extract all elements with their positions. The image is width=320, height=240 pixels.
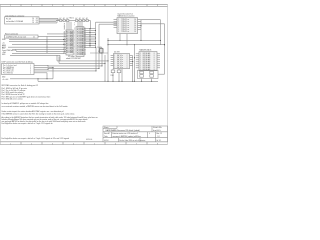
svg-text:21: 21 bbox=[64, 35, 66, 37]
wire RESET bbox=[38, 35, 66, 37]
wire U3 bottom drops bbox=[119, 34, 127, 46]
title block bbox=[103, 126, 168, 142]
svg-text:2/4: 2/4 bbox=[36, 20, 38, 22]
P1 pin numbers bbox=[32, 18, 38, 24]
connector P3 ICSP bbox=[2, 64, 35, 75]
junction dots right of module bbox=[89, 28, 96, 48]
svg-text:Pin 6 GND blk wire is ok too: Pin 6 GND blk wire is ok too bbox=[2, 97, 23, 100]
svg-text:kicad 4.0.7c: kicad 4.0.7c bbox=[153, 130, 161, 132]
svg-text:10: 10 bbox=[32, 18, 34, 20]
module U1 left bank bbox=[66, 30, 73, 55]
svg-text:Id: 1/1: Id: 1/1 bbox=[157, 140, 161, 142]
resistor R14 bbox=[140, 75, 144, 78]
wire cross run A bbox=[107, 40, 161, 41]
wire serial TX to U3 bbox=[96, 21, 118, 23]
wire bus run 4 bbox=[48, 67, 99, 69]
svg-text:T1IN C1+ o: T1IN C1+ o bbox=[121, 23, 129, 25]
U4 right pin stubs bbox=[130, 56, 133, 66]
svg-text:T1IN C1+ o: T1IN C1+ o bbox=[121, 27, 129, 29]
svg-text:40: 40 bbox=[84, 49, 86, 51]
note text block 5 bbox=[2, 116, 98, 123]
svg-text:21: 21 bbox=[64, 43, 66, 45]
wire serial RX to U3 bbox=[99, 24, 117, 47]
svg-text:21: 21 bbox=[64, 42, 66, 44]
connector P1 LCD interface bbox=[5, 17, 40, 24]
resistor R13 bbox=[140, 71, 144, 74]
svg-text:21: 21 bbox=[64, 37, 66, 39]
svg-text:4k7: 4k7 bbox=[79, 18, 81, 20]
wire U4 bottom drop bbox=[121, 69, 122, 82]
svg-text:14: 14 bbox=[134, 27, 136, 29]
svg-text:so no external resistors neede: so no external resistors needed, a BMP18… bbox=[2, 105, 69, 108]
svg-text:21: 21 bbox=[64, 45, 66, 47]
wire right edge vertical bbox=[158, 24, 165, 74]
capacitor C14 bbox=[150, 75, 154, 78]
wire bus run 2 bbox=[59, 57, 105, 64]
svg-text:For Eagle3d or better use expe: For Eagle3d or better use expect a dxf m… bbox=[2, 122, 53, 125]
resistor R8 bbox=[82, 18, 85, 21]
note text block 3 bbox=[2, 102, 69, 108]
svg-text:If the BMP085 sensor is used c: If the BMP085 sensor is used check the E… bbox=[2, 113, 75, 116]
bus right verticals bbox=[95, 38, 108, 82]
svg-text:ICSP connector used for flash: ICSP connector used for flash & debug bbox=[2, 61, 33, 64]
wire long bottom bus bbox=[37, 78, 158, 81]
vertical bus between ICs bbox=[134, 45, 135, 82]
svg-text:HARDWARE-Sensores RS-Interf (m: HARDWARE-Sensores RS-Interf (mbed) bbox=[106, 129, 141, 132]
svg-text:In mbed pcb1 SDA/SCL pullups a: In mbed pcb1 SDA/SCL pullups are on modu… bbox=[2, 102, 49, 105]
resistor R4 bbox=[63, 18, 66, 21]
resistor R11 bbox=[111, 70, 115, 73]
U1 right-bank left pin numbers bbox=[74, 28, 75, 56]
svg-text:40: 40 bbox=[84, 52, 86, 54]
svg-text:4/6: 4/6 bbox=[36, 22, 38, 24]
svg-text:31: 31 bbox=[64, 25, 66, 27]
U3 right pin stubs bbox=[138, 20, 142, 30]
svg-text:14: 14 bbox=[134, 25, 136, 27]
wire gnd collector bbox=[10, 67, 54, 80]
wire nets to module left pins bbox=[9, 39, 66, 44]
wire U3 to far right bbox=[141, 23, 165, 25]
note text block 2 bbox=[2, 95, 51, 100]
U5 left pin stubs bbox=[136, 54, 139, 68]
IC U3 bbox=[117, 18, 138, 34]
svg-text:14: 14 bbox=[134, 29, 136, 31]
wires ICSP pins bbox=[34, 65, 53, 72]
note text block 4 bbox=[2, 110, 75, 116]
U1 reference text bbox=[66, 56, 81, 60]
svg-text:31: 31 bbox=[64, 24, 66, 26]
resistor R6 bbox=[75, 18, 78, 21]
vertical bus x90 bbox=[89, 29, 91, 48]
wire bus run 5 bbox=[48, 70, 96, 72]
svg-text:ISP/JTAG connector for flash &: ISP/JTAG connector for flash & debug por… bbox=[2, 84, 38, 87]
svg-text:T1IN C1+ o: T1IN C1+ o bbox=[121, 31, 129, 33]
svg-text:21: 21 bbox=[64, 38, 66, 40]
svg-text:Pin 3 MISO grn: Pin 3 MISO grn bbox=[3, 69, 14, 71]
svg-text:4k7: 4k7 bbox=[82, 18, 84, 20]
IC U4 bbox=[114, 54, 130, 70]
svg-text:U4 74H: U4 74H bbox=[114, 51, 120, 53]
wire resistor-row bus bbox=[56, 20, 91, 22]
pin numbers above left bank bbox=[64, 24, 66, 31]
svg-text:For Eagle3d or better use expe: For Eagle3d or better use expect a dxf m… bbox=[2, 137, 70, 140]
IC U5 bbox=[139, 52, 157, 72]
svg-text:T1IN C1+ o: T1IN C1+ o bbox=[121, 21, 129, 23]
svg-text:14: 14 bbox=[32, 22, 34, 24]
module U1 right bank bbox=[76, 27, 84, 57]
resistor R9 bbox=[86, 18, 89, 21]
svg-text:1/2: 1/2 bbox=[36, 18, 38, 20]
svg-text:Pin 1 +5v (vcc) red: Pin 1 +5v (vcc) red bbox=[3, 65, 16, 67]
svg-text:120R: 120R bbox=[111, 75, 114, 77]
U1 left pin numbers bbox=[64, 31, 66, 54]
svg-text:4k7: 4k7 bbox=[66, 18, 68, 20]
title block text bbox=[104, 126, 162, 142]
wires left cluster bbox=[112, 69, 119, 82]
svg-text:21: 21 bbox=[64, 49, 66, 51]
wire LCD_D4 bbox=[39, 20, 56, 22]
svg-text:21: 21 bbox=[64, 47, 66, 49]
module left pin stubs bbox=[8, 34, 66, 47]
wire right vertical drop bbox=[160, 20, 162, 45]
vertical bus wire x47 bbox=[46, 36, 48, 53]
pin numbers above right bank bbox=[74, 23, 75, 27]
svg-text:4k7: 4k7 bbox=[59, 18, 61, 20]
svg-text:31: 31 bbox=[64, 29, 66, 31]
wire drops to module top pins bbox=[67, 21, 91, 30]
svg-text:14: 14 bbox=[134, 19, 136, 21]
svg-text:4k7: 4k7 bbox=[75, 18, 77, 20]
svg-text:40: 40 bbox=[84, 35, 86, 37]
resistor R7 bbox=[79, 18, 82, 21]
wires from left labels bbox=[10, 49, 66, 61]
svg-text:Pin 2 MOSI blu: Pin 2 MOSI blu bbox=[3, 67, 14, 69]
U3 label bbox=[118, 12, 135, 17]
junction dots bank entries bbox=[63, 39, 64, 54]
svg-text:T1IN C1+ o: T1IN C1+ o bbox=[121, 29, 129, 31]
svg-text:21: 21 bbox=[64, 31, 66, 33]
svg-text:4k7: 4k7 bbox=[63, 18, 65, 20]
note text block 1 bbox=[2, 84, 38, 96]
svg-text:T1IN C1+ o: T1IN C1+ o bbox=[121, 19, 129, 21]
wire cross run B bbox=[107, 44, 165, 45]
svg-text:4-12-8 v1: 4-12-8 v1 bbox=[86, 139, 93, 141]
svg-text:no backlite LCD2004A: no backlite LCD2004A bbox=[6, 20, 24, 23]
svg-text:14: 14 bbox=[134, 23, 136, 25]
wire LCD_RS bbox=[39, 17, 58, 19]
svg-text:IC1 mbed: IC1 mbed bbox=[68, 56, 75, 58]
svg-text:4-12-8: 4-12-8 bbox=[104, 140, 109, 142]
crystal X1 bbox=[98, 47, 104, 53]
wires right cluster bbox=[107, 71, 152, 82]
sheet border frame bbox=[0, 4, 168, 145]
svg-text:+5v +3v3: +5v +3v3 bbox=[2, 79, 8, 81]
P3 pin numbers bbox=[30, 65, 31, 74]
svg-text:14: 14 bbox=[134, 21, 136, 23]
wire bus run 1 bbox=[57, 55, 108, 61]
resistor R5 bbox=[66, 18, 69, 21]
wires module right pins bbox=[84, 29, 96, 48]
wire crystal to bus bbox=[90, 52, 108, 53]
svg-text:21: 21 bbox=[64, 50, 66, 52]
capacitor C13 bbox=[150, 71, 154, 74]
svg-text:+5v: +5v bbox=[2, 42, 5, 44]
svg-text:mbed LPC1768 NXP: mbed LPC1768 NXP bbox=[66, 58, 81, 60]
resistor R12 bbox=[117, 70, 121, 73]
termination network outline bbox=[138, 70, 159, 78]
wire U4 right vertical bbox=[132, 56, 133, 82]
svg-text:Pin 5 RST blk: Pin 5 RST blk bbox=[3, 72, 13, 74]
wire bus run 3 bbox=[48, 65, 102, 67]
svg-text:40: 40 bbox=[84, 54, 86, 56]
connector P2 reset bbox=[5, 35, 39, 39]
svg-text:21: 21 bbox=[64, 52, 66, 54]
svg-text:1/2: 1/2 bbox=[158, 136, 160, 138]
wire LCD_D5 bbox=[39, 22, 57, 24]
svg-text:2 1: 2 1 bbox=[33, 37, 35, 39]
svg-text:T1IN C1+ o: T1IN C1+ o bbox=[121, 25, 129, 27]
svg-text:21: 21 bbox=[64, 40, 66, 42]
resistor R3 bbox=[59, 18, 62, 21]
svg-text:R10 1k: R10 1k bbox=[70, 17, 75, 19]
wire bends into resistor row bbox=[57, 18, 60, 23]
wire LCD_E bbox=[39, 19, 60, 21]
svg-text:4k7: 4k7 bbox=[86, 18, 88, 20]
U4 left pin stubs bbox=[111, 56, 114, 66]
U5 right pin stubs bbox=[157, 54, 160, 68]
vertical bus x95.5 bbox=[95, 22, 97, 47]
svg-text:12: 12 bbox=[32, 20, 34, 22]
svg-text:14: 14 bbox=[134, 31, 136, 33]
svg-text:Rev: 1.2: Rev: 1.2 bbox=[157, 133, 163, 135]
svg-text:21: 21 bbox=[64, 33, 66, 35]
U1 right pin numbers bbox=[84, 28, 86, 56]
U3 left pin stubs bbox=[114, 20, 118, 28]
svg-text:40: 40 bbox=[84, 51, 86, 53]
wire U3 to right edge bbox=[140, 20, 160, 41]
